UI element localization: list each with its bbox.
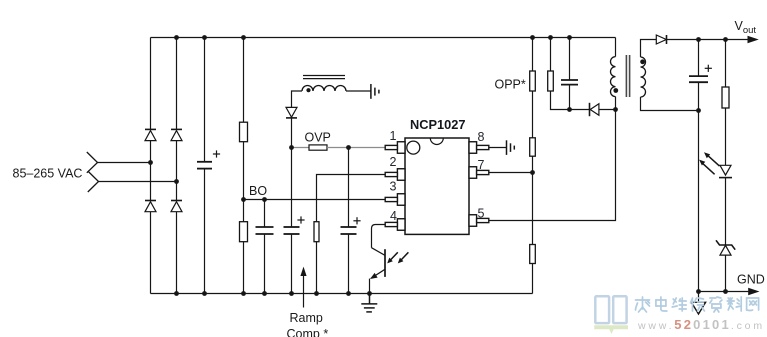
wire OPP column top segment bbox=[532, 38, 534, 72]
node bottom rail / BO divider bbox=[241, 291, 246, 296]
opto light arrow 2 bbox=[398, 252, 409, 263]
wire LED to zener bbox=[725, 178, 727, 245]
node secondary return / cap bottom bbox=[696, 108, 701, 113]
wire R5 to R6 bbox=[532, 91, 534, 138]
wire input node to D3 bbox=[150, 163, 152, 201]
wire C2 to bottom rail bbox=[264, 234, 266, 294]
LED light arrow 2 bbox=[699, 160, 715, 175]
diode D1 (bridge upper-left) bbox=[145, 129, 156, 140]
wire bulk cap column upper bbox=[204, 38, 206, 162]
watermark chinese text (vector pseudo-glyphs) bbox=[636, 297, 759, 312]
wire pin7 node to R7 bbox=[532, 173, 534, 245]
svg-text:4: 4 bbox=[390, 209, 397, 223]
wire zener to GND rail bbox=[725, 255, 727, 291]
pin 5 stub bbox=[469, 215, 489, 227]
wire BO divider column upper bbox=[243, 38, 245, 123]
aux winding phase dot bbox=[306, 88, 310, 92]
transformer T1 primary winding bbox=[611, 57, 616, 97]
wire input line lower bbox=[99, 181, 177, 183]
wire output ground column bbox=[698, 82, 700, 291]
opto light arrow 1 bbox=[387, 252, 398, 263]
ground (under optocoupler) bbox=[361, 294, 377, 312]
node bottom rail / VCC cap bbox=[289, 291, 294, 296]
svg-text:NCP1027: NCP1027 bbox=[410, 117, 466, 132]
inductor aux winding bbox=[302, 86, 346, 91]
node OVP bbox=[289, 145, 294, 150]
pin 1 stub bbox=[385, 142, 405, 154]
C1 plus sign bbox=[213, 150, 220, 157]
T1 primary phase dot bbox=[613, 88, 618, 93]
output ground down-arrow bbox=[691, 292, 705, 315]
wire pin 7 to OPP node bbox=[489, 172, 533, 174]
wire C5 to clamp line bbox=[569, 85, 571, 110]
wire T1 primary bottom to drain node bbox=[615, 97, 617, 110]
resistor R2 (BO lower) bbox=[240, 222, 248, 242]
wire BO node to pin 3 bbox=[244, 199, 386, 201]
transformer T1 secondary winding bbox=[641, 57, 646, 97]
T1 secondary phase dot bbox=[640, 59, 645, 64]
U1 top notch bbox=[430, 138, 443, 145]
svg-text:GND: GND bbox=[737, 273, 765, 287]
wire R8 to clamp line bbox=[551, 91, 590, 110]
wire output cap stub bbox=[698, 40, 700, 77]
C4 plus sign bbox=[353, 217, 360, 224]
wire Q1 emitter to rail bbox=[369, 279, 371, 294]
wire T1 secondary top to output diode bbox=[641, 40, 657, 58]
diode D4 (bridge lower-right) bbox=[171, 201, 182, 212]
node bottom rail / R4 bbox=[314, 291, 319, 296]
node pin7 / OPP bbox=[530, 170, 535, 175]
svg-text:www.520101.com: www.520101.com bbox=[637, 317, 765, 332]
wire T1 secondary bottom return bbox=[641, 97, 699, 111]
input terminal chevron lower bbox=[88, 171, 99, 192]
node top rail / clamp R bbox=[548, 35, 553, 40]
input terminal chevron upper bbox=[87, 152, 98, 173]
node GND rail / cap column bbox=[696, 289, 701, 294]
LED light arrow 1 bbox=[704, 152, 720, 166]
pin 4 stub bbox=[385, 219, 405, 231]
wire clamp cap stub upper bbox=[569, 38, 571, 81]
wire GND rail bbox=[699, 291, 749, 293]
svg-text:Vout: Vout bbox=[735, 19, 757, 36]
wire D5 to OVP node bbox=[291, 118, 293, 148]
svg-text:Ramp: Ramp bbox=[290, 311, 323, 325]
watermark book logo bbox=[595, 296, 626, 323]
node top rail / bulk cap bbox=[202, 35, 207, 40]
pin 3 stub bbox=[385, 194, 405, 206]
zener diode D9 bbox=[716, 240, 735, 255]
wire OVP resistor to pin 1 bbox=[327, 147, 385, 149]
wire BO filter cap stub bbox=[264, 200, 266, 228]
diode D7 (output rectifier) bbox=[656, 35, 666, 44]
svg-text:Comp *: Comp * bbox=[287, 327, 329, 337]
resistor R4 (pin2 lower) bbox=[314, 222, 319, 242]
wire bridge column B upper segment bbox=[176, 38, 178, 130]
wire VCC cap column bbox=[291, 148, 293, 228]
wire output divider column top bbox=[725, 40, 727, 88]
resistor R8 (clamp) bbox=[548, 71, 554, 91]
wire pin 4 to optocoupler collector bbox=[372, 225, 386, 248]
T1 core lines bbox=[626, 55, 629, 97]
wire pin 5 to transformer drain node bbox=[489, 110, 616, 221]
wire R4 to bottom rail bbox=[316, 242, 318, 294]
node OVP / C4 tap bbox=[346, 145, 351, 150]
wire top HV rail bbox=[151, 37, 616, 39]
GND arrowhead bbox=[748, 288, 759, 295]
node BO cap bbox=[262, 197, 267, 202]
wire bridge column A upper segment bbox=[150, 38, 152, 130]
wire aux winding to ground bbox=[346, 90, 371, 92]
svg-text:85–265 VAC: 85–265 VAC bbox=[13, 166, 83, 180]
node input upper bbox=[148, 160, 153, 165]
wire D3 to bottom rail bbox=[150, 212, 152, 294]
svg-text:8: 8 bbox=[478, 130, 485, 144]
node bottom rail / BO cap bbox=[262, 291, 267, 296]
wire D1 to input node bbox=[150, 141, 152, 163]
U1 pin1 marker circle bbox=[407, 141, 420, 154]
wire input line upper bbox=[98, 162, 151, 164]
wire aux winding to D5 bbox=[292, 91, 303, 107]
ground (aux, right-pointing) bbox=[371, 84, 379, 99]
op-amp U1 body (NCP1027 IC) bbox=[405, 138, 469, 234]
transistor Q1 (optocoupler output) bbox=[370, 248, 385, 279]
resistor R6 (OPP middle) bbox=[530, 138, 536, 156]
node Vout / divider bbox=[723, 37, 728, 42]
svg-text:5: 5 bbox=[478, 207, 485, 221]
wire clamp resistor column bbox=[550, 38, 552, 72]
diode D5 (aux rectifier) bbox=[286, 107, 297, 118]
wire bulk cap column lower bbox=[204, 169, 206, 294]
node bottom rail / bulk cap bbox=[202, 291, 207, 296]
node clamp cap junction bbox=[567, 107, 572, 112]
resistor R5 (OPP upper) bbox=[530, 71, 536, 91]
svg-text:2: 2 bbox=[390, 155, 397, 169]
diode D3 (bridge lower-left) bbox=[145, 201, 156, 212]
ground (pin 8, right-pointing) bbox=[507, 140, 515, 155]
capacitor C3 (VCC) bbox=[284, 227, 300, 234]
wire D6 to drain node bbox=[599, 109, 616, 111]
node GND rail / zener bbox=[723, 289, 728, 294]
svg-text:1: 1 bbox=[390, 129, 397, 143]
diode D2 (bridge upper-right) bbox=[171, 129, 182, 140]
LED D8 (optocoupler emitter) bbox=[719, 165, 732, 177]
capacitor C6 (output) bbox=[689, 76, 708, 82]
resistor R9 (output) bbox=[722, 87, 729, 108]
node input lower bbox=[174, 179, 179, 184]
pin 8 stub bbox=[469, 142, 489, 154]
wire pin 2 to R4 bbox=[317, 175, 386, 222]
wire OVP node to C4 column bbox=[348, 148, 350, 228]
resistor R7 (OPP lower) bbox=[530, 245, 536, 264]
resistor R3 (OVP, horizontal) bbox=[309, 145, 327, 150]
node bottom rail / C4 bbox=[346, 291, 351, 296]
svg-text:OPP*: OPP* bbox=[495, 78, 526, 92]
wire R1 to BO node bbox=[243, 142, 245, 200]
node top rail / BO divider bbox=[241, 35, 246, 40]
wire C3 to bottom rail bbox=[291, 234, 293, 294]
wire output Vout rail bbox=[667, 39, 749, 41]
watermark book underline bbox=[594, 327, 628, 334]
wire R9 to LED bbox=[725, 108, 727, 165]
node drain junction bbox=[613, 107, 618, 112]
node top rail / OPP bbox=[530, 35, 535, 40]
pin 2 stub bbox=[385, 169, 405, 181]
wire R2 to bottom rail bbox=[243, 242, 245, 294]
svg-text:OVP: OVP bbox=[305, 131, 331, 145]
diode D6 (clamp, pointing left) bbox=[590, 103, 599, 116]
svg-text:BO: BO bbox=[249, 184, 267, 198]
resistor R1 (BO upper) bbox=[240, 122, 248, 142]
wire OVP node to resistor bbox=[292, 147, 310, 149]
wire D2 to input node bbox=[176, 141, 178, 182]
node Vout / output cap bbox=[696, 37, 701, 42]
transformer T1 primary feed bbox=[615, 38, 617, 57]
wire D4 to bottom rail bbox=[176, 212, 178, 294]
C3 plus sign bbox=[297, 216, 304, 223]
Vout arrowhead bbox=[748, 36, 759, 43]
wire R6 to pin7 node bbox=[532, 156, 534, 172]
wire bottom primary ground rail bbox=[151, 293, 533, 295]
capacitor C2 (BO filter) bbox=[256, 227, 274, 234]
wire pin 8 to ground bbox=[489, 147, 507, 149]
Ramp Comp pointer arrow bbox=[300, 267, 306, 308]
node BO bbox=[241, 197, 246, 202]
capacitor C4 bbox=[341, 227, 357, 234]
wire C4 to bottom rail bbox=[348, 234, 350, 294]
pin 7 stub bbox=[469, 167, 489, 179]
wire input node to D4 bbox=[176, 182, 178, 201]
node top rail / clamp C bbox=[567, 35, 572, 40]
capacitor C1 (bulk) bbox=[197, 162, 212, 169]
wire BO node to R2 bbox=[243, 200, 245, 222]
C6 plus sign bbox=[705, 65, 712, 72]
wire R7 to bottom rail bbox=[532, 264, 534, 294]
aux winding core lines bbox=[303, 76, 345, 79]
node top rail / bridge B bbox=[174, 35, 179, 40]
svg-text:3: 3 bbox=[390, 180, 397, 194]
node bottom rail / bridge B bbox=[174, 291, 179, 296]
node bottom rail / opto emitter bbox=[367, 291, 372, 296]
svg-text:7: 7 bbox=[478, 158, 485, 172]
capacitor C5 (clamp) bbox=[561, 80, 578, 85]
